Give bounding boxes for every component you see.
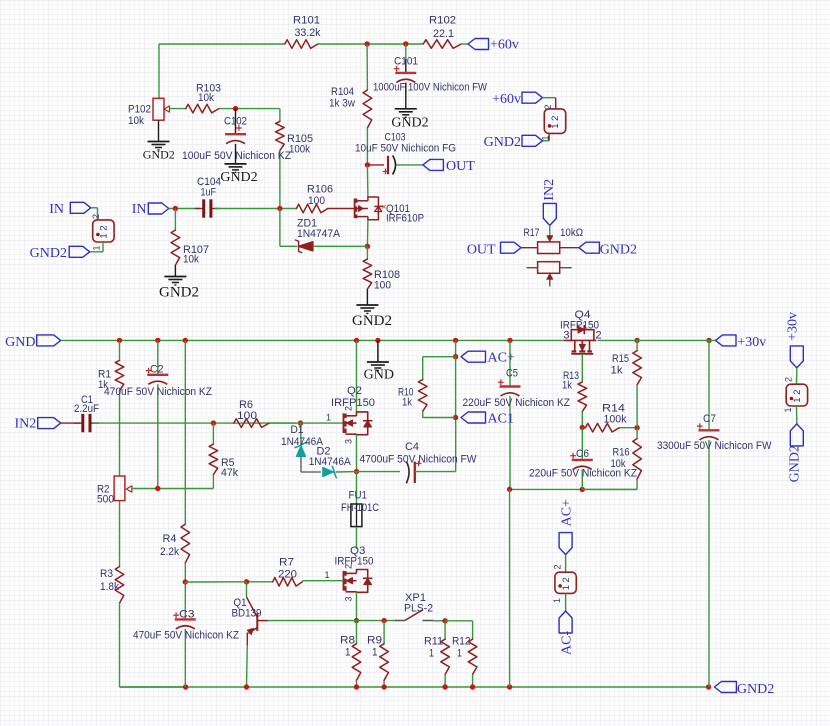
svg-text:C6: C6 (576, 448, 589, 460)
svg-text:3300uF 50V Nichicon FW: 3300uF 50V Nichicon FW (657, 440, 772, 452)
svg-text:IN: IN (49, 202, 64, 217)
svg-text:1000uF 100V Nichicon FW: 1000uF 100V Nichicon FW (373, 82, 488, 94)
svg-text:IN2: IN2 (542, 179, 557, 201)
svg-text:+30v: +30v (737, 335, 766, 350)
svg-text:1: 1 (457, 648, 462, 660)
svg-text:R4: R4 (163, 533, 177, 545)
svg-text:GND2: GND2 (143, 148, 175, 162)
svg-text:1k: 1k (402, 397, 412, 409)
svg-text:C101: C101 (394, 56, 418, 68)
svg-text:100uF 50V Nichicon KZ: 100uF 50V Nichicon KZ (182, 150, 291, 162)
svg-text:2: 2 (596, 330, 602, 342)
svg-text:C4: C4 (405, 441, 419, 453)
svg-text:1k: 1k (611, 365, 624, 377)
svg-text:100k: 100k (289, 144, 310, 156)
svg-text:GND2: GND2 (159, 285, 199, 301)
svg-text:Q2: Q2 (347, 385, 362, 397)
svg-text:2: 2 (344, 564, 354, 569)
svg-text:+60v: +60v (492, 92, 521, 107)
svg-text:OUT: OUT (467, 243, 496, 258)
svg-text:1: 1 (92, 245, 102, 250)
svg-text:100: 100 (308, 195, 325, 207)
svg-text:GND2: GND2 (391, 116, 428, 131)
svg-text:1: 1 (345, 647, 351, 659)
svg-text:1 2: 1 2 (99, 225, 110, 238)
svg-text:GND2: GND2 (220, 170, 257, 185)
svg-text:C102: C102 (224, 116, 247, 128)
svg-text:C3: C3 (179, 609, 195, 621)
svg-text:2.2uF: 2.2uF (74, 403, 99, 415)
svg-text:IRF610P: IRF610P (386, 213, 424, 225)
svg-text:R106: R106 (307, 184, 333, 196)
svg-text:1: 1 (783, 407, 793, 412)
svg-text:R17: R17 (524, 227, 540, 239)
svg-text:IN: IN (132, 202, 147, 217)
svg-text:22.1: 22.1 (433, 28, 454, 40)
svg-text:GND: GND (5, 335, 35, 350)
svg-text:C5: C5 (506, 368, 518, 380)
svg-text:1 2: 1 2 (550, 116, 561, 129)
svg-text:1: 1 (372, 647, 378, 659)
svg-text:GND2: GND2 (600, 243, 637, 258)
svg-text:OUT: OUT (446, 159, 475, 174)
svg-text:R9: R9 (367, 635, 382, 647)
svg-text:1.8k: 1.8k (100, 581, 119, 593)
svg-text:+30v: +30v (786, 312, 801, 341)
svg-text:R16: R16 (613, 447, 630, 459)
svg-text:10k: 10k (183, 254, 199, 266)
svg-text:2: 2 (553, 564, 563, 569)
svg-text:1 2: 1 2 (561, 577, 572, 590)
svg-text:R12: R12 (452, 636, 471, 648)
svg-text:10kΩ: 10kΩ (560, 227, 583, 239)
svg-text:470uF 50V Nichicon KZ: 470uF 50V Nichicon KZ (133, 630, 239, 642)
svg-text:R101: R101 (293, 15, 320, 27)
svg-text:C2: C2 (150, 364, 164, 376)
svg-text:4700uF 50V Nichicon FW: 4700uF 50V Nichicon FW (360, 454, 478, 466)
svg-text:GND: GND (364, 368, 394, 383)
svg-text:1k 3w: 1k 3w (329, 98, 355, 110)
svg-text:FU1: FU1 (349, 490, 368, 502)
svg-text:GND2: GND2 (484, 135, 521, 150)
svg-text:220uF 50V Nichicon KZ: 220uF 50V Nichicon KZ (463, 397, 571, 409)
svg-text:FH-101C: FH-101C (341, 502, 379, 514)
svg-text:GND2: GND2 (788, 445, 803, 482)
svg-text:PLS-2: PLS-2 (404, 603, 433, 615)
svg-text:1: 1 (324, 570, 329, 580)
svg-text:D1: D1 (291, 424, 304, 436)
svg-text:3: 3 (344, 596, 354, 601)
svg-text:R3: R3 (100, 568, 113, 580)
svg-text:2.2k: 2.2k (160, 546, 179, 558)
svg-text:220uF 50V Nichicon KZ: 220uF 50V Nichicon KZ (529, 468, 637, 480)
svg-text:100: 100 (374, 280, 391, 292)
svg-text:2: 2 (91, 214, 101, 219)
svg-text:1 2: 1 2 (792, 389, 803, 402)
svg-text:AC+: AC+ (488, 351, 515, 366)
svg-text:10uF 50V Nichicon FG: 10uF 50V Nichicon FG (355, 143, 456, 155)
svg-text:GND2: GND2 (30, 246, 67, 261)
svg-text:47k: 47k (221, 467, 238, 479)
svg-text:10k: 10k (198, 92, 214, 104)
svg-text:100: 100 (237, 410, 257, 422)
svg-text:500: 500 (97, 494, 114, 506)
svg-text:2: 2 (784, 377, 794, 382)
svg-text:1: 1 (326, 413, 331, 423)
svg-text:470uF 50V Nichicon KZ: 470uF 50V Nichicon KZ (104, 386, 212, 398)
svg-text:1uF: 1uF (201, 187, 217, 199)
svg-text:×: × (382, 203, 387, 212)
svg-text:10k: 10k (128, 115, 144, 127)
svg-text:AC+: AC+ (560, 499, 575, 526)
svg-text:1: 1 (429, 648, 434, 660)
svg-text:1N4747A: 1N4747A (297, 228, 341, 240)
svg-text:3: 3 (563, 330, 569, 342)
svg-text:R7: R7 (279, 557, 294, 569)
svg-text:+60v: +60v (490, 38, 519, 53)
svg-text:R8: R8 (340, 635, 355, 647)
svg-text:220: 220 (278, 569, 297, 581)
svg-text:R11: R11 (424, 636, 443, 648)
svg-text:2: 2 (344, 406, 354, 411)
svg-text:R102: R102 (429, 15, 456, 27)
svg-text:R104: R104 (331, 86, 354, 98)
svg-text:1k: 1k (562, 380, 572, 392)
svg-text:33.2k: 33.2k (295, 27, 321, 39)
svg-text:2: 2 (543, 104, 553, 109)
svg-text:AC1: AC1 (488, 412, 514, 427)
svg-text:1N4746A: 1N4746A (309, 456, 352, 468)
svg-text:IRFP150: IRFP150 (335, 556, 374, 568)
svg-text:GND2: GND2 (352, 313, 392, 329)
svg-text:C7: C7 (703, 413, 716, 425)
svg-text:P102: P102 (128, 104, 151, 116)
svg-text:IN2: IN2 (15, 417, 37, 432)
svg-text:1: 1 (552, 598, 562, 603)
svg-text:GND2: GND2 (737, 682, 774, 697)
svg-text:3: 3 (344, 439, 354, 444)
svg-text:R15: R15 (612, 353, 629, 365)
svg-text:AC-: AC- (560, 631, 575, 655)
svg-text:100k: 100k (604, 414, 627, 426)
svg-text:1: 1 (541, 135, 551, 140)
svg-text:BD139: BD139 (232, 608, 262, 620)
